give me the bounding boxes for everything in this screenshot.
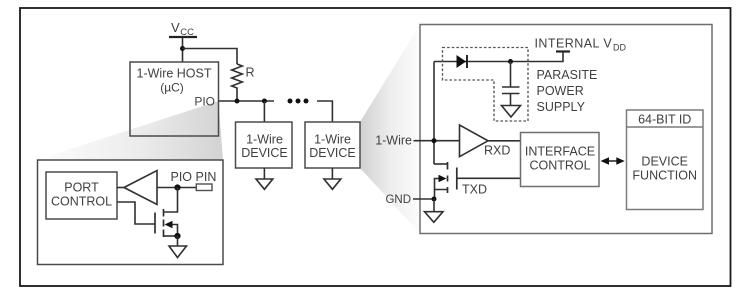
svg-text:V: V (171, 20, 180, 35)
capacitor C1 (502, 62, 520, 106)
wire device1 riser (263, 101, 265, 122)
bus continuation dots (288, 99, 309, 104)
buffer RXD (460, 125, 489, 157)
pad PIO pin (196, 184, 212, 191)
svg-text:POWER: POWER (537, 84, 584, 98)
svg-text:1-Wire: 1-Wire (246, 133, 283, 147)
ground inset (169, 236, 187, 258)
supply VCC label (171, 20, 194, 38)
wire port control to buffer apex (117, 187, 124, 189)
block PORT CONTROL (46, 172, 117, 219)
supply VCC rail bar (169, 36, 197, 38)
wire buffer to pin pad (157, 187, 196, 189)
wire VCC junction to resistor top (183, 49, 238, 65)
inset box (PIO detail) (38, 160, 224, 265)
ground capacitor (502, 106, 521, 118)
node resistor/bus junction (235, 99, 240, 104)
transistor Q1 (inset pulldown) (155, 209, 178, 237)
block INTERFACE CONTROL (521, 133, 600, 187)
svg-text:SUPPLY: SUPPLY (537, 100, 586, 114)
svg-text:1-Wire: 1-Wire (375, 134, 412, 148)
node capacitor junction (508, 59, 513, 64)
callout shading host-to-inset (37, 101, 223, 160)
svg-text:PARASITE: PARASITE (537, 68, 598, 82)
rail bar INTERNAL VDD (556, 50, 570, 52)
svg-text:R: R (246, 66, 255, 80)
svg-text:GND: GND (385, 194, 411, 206)
wire VCC bar to host box top (182, 37, 184, 62)
wire gate from port control (117, 202, 155, 224)
svg-text:CONTROL: CONTROL (529, 159, 590, 173)
wire TXD gate to interface control (457, 177, 521, 179)
svg-text:INTERFACE: INTERFACE (525, 145, 595, 159)
svg-text:RXD: RXD (484, 144, 510, 158)
node 1-Wire (432, 138, 437, 143)
wire GND into box (413, 198, 434, 200)
svg-text:PIO PIN: PIO PIN (171, 170, 217, 184)
wire PIO bus (219, 100, 275, 102)
svg-text:1-Wire: 1-Wire (314, 133, 351, 147)
svg-text:1-Wire HOST: 1-Wire HOST (137, 67, 212, 81)
svg-text:PORT: PORT (64, 181, 99, 195)
buffer U (input) (124, 171, 157, 205)
wire RXD to interface control (488, 140, 521, 142)
node GND (432, 197, 437, 202)
label PARASITE POWER SUPPLY (537, 68, 598, 114)
node device1 junction (262, 99, 267, 104)
ground below device2 (324, 168, 341, 189)
wire 1-Wire into box (414, 140, 460, 142)
svg-text:INTERNAL V: INTERNAL V (535, 37, 613, 51)
node source junction (174, 233, 180, 239)
callout shading device-to-rightbox (360, 25, 420, 234)
arrow interface to device function (601, 157, 625, 165)
node PIO pin junction (174, 184, 180, 190)
ground GND (425, 199, 444, 222)
svg-text:DD: DD (613, 43, 626, 53)
label INTERNAL VDD (535, 37, 627, 53)
wire rail down and left to diode (434, 52, 563, 62)
svg-text:TXD: TXD (462, 183, 487, 197)
device box 1-Wire DEVICE #1 (236, 122, 293, 168)
block DEVICE FUNCTION / 64-BIT ID (627, 110, 704, 210)
transistor Q2 TXD (434, 162, 457, 199)
svg-text:DEVICE: DEVICE (641, 155, 688, 169)
wire 1-Wire bus vertical (433, 62, 435, 165)
svg-text:DEVICE: DEVICE (241, 146, 288, 160)
svg-text:(µC): (µC) (160, 81, 184, 95)
device box 1-Wire DEVICE #2 (305, 122, 360, 168)
ground below device1 (256, 168, 273, 189)
diode D1 (457, 55, 468, 68)
right box (1-Wire device internals) (420, 25, 712, 234)
svg-text:PIO: PIO (194, 95, 215, 109)
svg-text:FUNCTION: FUNCTION (632, 169, 697, 183)
wire bus to device2 (317, 101, 332, 122)
svg-text:DEVICE: DEVICE (309, 146, 356, 160)
wire junction down to mosfet drain (164, 188, 178, 213)
dashed parasite power boundary (443, 48, 529, 122)
resistor R (232, 64, 243, 101)
svg-text:64-BIT ID: 64-BIT ID (638, 113, 691, 127)
svg-text:CONTROL: CONTROL (51, 195, 112, 209)
host box 1-Wire HOST (uC) (130, 62, 219, 136)
node VCC junction (180, 46, 185, 51)
